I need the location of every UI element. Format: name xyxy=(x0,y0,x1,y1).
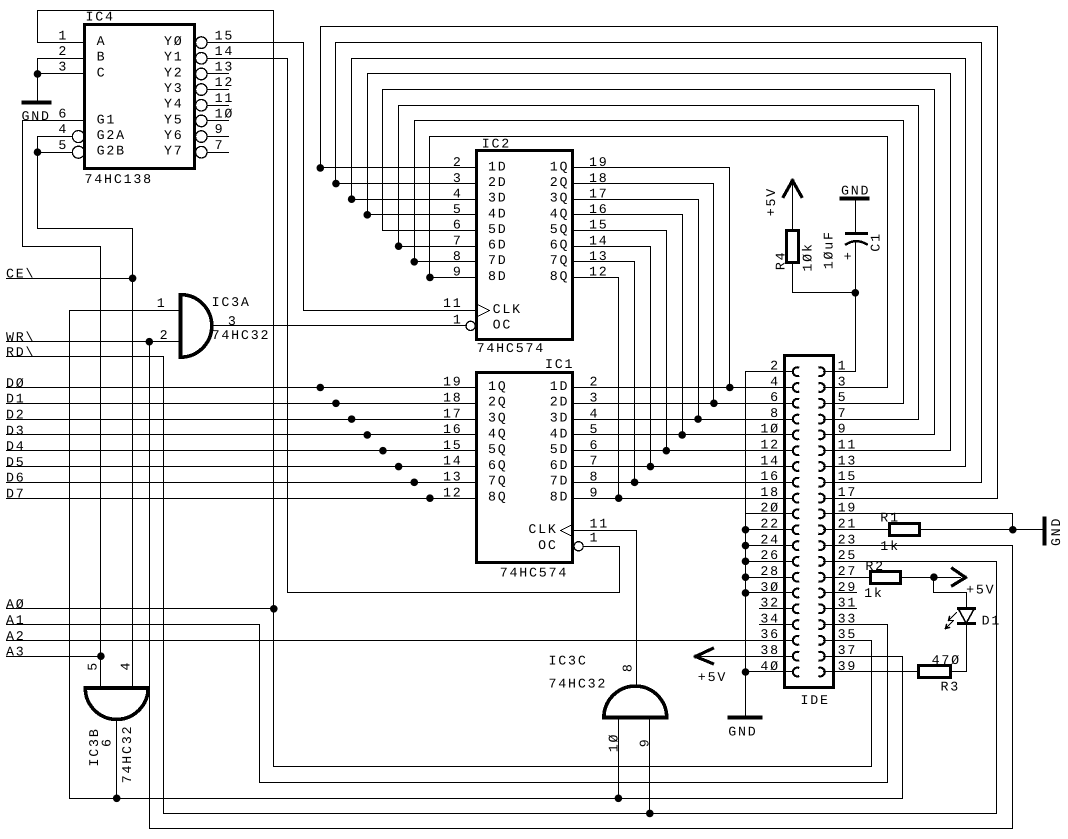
svg-text:18: 18 xyxy=(589,171,609,186)
svg-text:4: 4 xyxy=(119,661,134,671)
svg-text:16: 16 xyxy=(760,469,780,484)
svg-text:RD\: RD\ xyxy=(6,345,35,360)
svg-text:Y6: Y6 xyxy=(164,128,184,143)
svg-text:37: 37 xyxy=(838,643,858,658)
svg-text:Y4: Y4 xyxy=(164,97,184,112)
svg-text:15: 15 xyxy=(443,438,463,453)
svg-text:4: 4 xyxy=(770,374,780,389)
svg-text:9: 9 xyxy=(838,422,848,437)
svg-text:1Øk: 1Øk xyxy=(801,242,816,271)
svg-text:D5: D5 xyxy=(6,455,26,470)
svg-text:6D: 6D xyxy=(550,458,570,473)
svg-text:74HC32: 74HC32 xyxy=(549,677,608,692)
svg-text:17: 17 xyxy=(443,406,463,421)
svg-text:Y1: Y1 xyxy=(164,50,184,65)
svg-text:D3: D3 xyxy=(6,423,26,438)
svg-text:9: 9 xyxy=(215,122,225,137)
svg-text:R4: R4 xyxy=(774,251,789,271)
svg-text:6: 6 xyxy=(590,438,600,453)
svg-text:8Q: 8Q xyxy=(488,490,508,505)
svg-text:Y7: Y7 xyxy=(164,144,184,159)
svg-text:1k: 1k xyxy=(880,539,900,554)
svg-text:6: 6 xyxy=(770,390,780,405)
svg-text:1Q: 1Q xyxy=(550,159,570,174)
svg-text:+5V: +5V xyxy=(698,670,727,685)
svg-text:G2B: G2B xyxy=(97,144,126,159)
svg-text:CLK: CLK xyxy=(493,302,522,317)
svg-text:A3: A3 xyxy=(6,645,26,660)
svg-text:4D: 4D xyxy=(550,426,570,441)
svg-text:23: 23 xyxy=(838,532,858,547)
svg-text:16: 16 xyxy=(443,422,463,437)
svg-text:13: 13 xyxy=(838,453,858,468)
svg-text:1k: 1k xyxy=(864,586,884,601)
svg-text:32: 32 xyxy=(760,596,780,611)
svg-text:1ØuF: 1ØuF xyxy=(821,230,836,269)
svg-text:11: 11 xyxy=(838,438,858,453)
svg-text:4: 4 xyxy=(453,186,463,201)
svg-text:12: 12 xyxy=(215,75,235,90)
svg-text:5: 5 xyxy=(58,138,68,153)
svg-text:Y5: Y5 xyxy=(164,112,184,127)
svg-text:GND: GND xyxy=(841,183,870,198)
svg-text:2: 2 xyxy=(590,375,600,390)
svg-text:26: 26 xyxy=(760,548,780,563)
svg-text:GND: GND xyxy=(22,109,51,124)
svg-text:IC3A: IC3A xyxy=(212,295,251,310)
svg-text:5: 5 xyxy=(85,661,100,671)
svg-text:8D: 8D xyxy=(488,269,508,284)
svg-text:6: 6 xyxy=(453,218,463,233)
svg-text:2D: 2D xyxy=(488,175,508,190)
svg-text:1: 1 xyxy=(838,359,848,374)
svg-text:34: 34 xyxy=(760,611,780,626)
svg-text:28: 28 xyxy=(760,564,780,579)
svg-text:2: 2 xyxy=(453,155,463,170)
svg-text:IC2: IC2 xyxy=(482,137,511,152)
svg-text:1Ø: 1Ø xyxy=(607,733,622,753)
svg-text:4Q: 4Q xyxy=(550,206,570,221)
svg-text:IDE: IDE xyxy=(801,693,830,708)
svg-text:14: 14 xyxy=(215,44,235,59)
svg-text:5: 5 xyxy=(838,390,848,405)
svg-text:8D: 8D xyxy=(550,490,570,505)
svg-text:1Ø: 1Ø xyxy=(760,422,780,437)
svg-text:12: 12 xyxy=(589,265,609,280)
svg-text:6Q: 6Q xyxy=(550,238,570,253)
svg-text:12: 12 xyxy=(443,485,463,500)
svg-text:IC3C: IC3C xyxy=(549,654,588,669)
svg-text:7: 7 xyxy=(838,406,848,421)
svg-text:1Q: 1Q xyxy=(488,379,508,394)
svg-text:5: 5 xyxy=(453,202,463,217)
svg-text:+5V: +5V xyxy=(764,187,779,216)
svg-text:G1: G1 xyxy=(97,112,117,127)
svg-text:8: 8 xyxy=(453,249,463,264)
svg-text:17: 17 xyxy=(589,186,609,201)
svg-text:3: 3 xyxy=(590,391,600,406)
svg-text:11: 11 xyxy=(443,296,463,311)
svg-text:2: 2 xyxy=(58,44,68,59)
svg-text:7D: 7D xyxy=(550,474,570,489)
svg-text:A1: A1 xyxy=(6,613,26,628)
svg-text:6Q: 6Q xyxy=(488,458,508,473)
svg-text:25: 25 xyxy=(838,548,858,563)
svg-text:74HC574: 74HC574 xyxy=(477,341,545,356)
svg-text:11: 11 xyxy=(215,91,235,106)
svg-text:13: 13 xyxy=(443,470,463,485)
svg-text:R2: R2 xyxy=(865,559,885,574)
svg-text:18: 18 xyxy=(443,391,463,406)
svg-text:6D: 6D xyxy=(488,238,508,253)
svg-text:1: 1 xyxy=(590,531,600,546)
svg-text:CLK: CLK xyxy=(528,522,557,537)
svg-text:5: 5 xyxy=(590,422,600,437)
svg-text:3: 3 xyxy=(228,314,238,329)
svg-text:D1: D1 xyxy=(6,392,26,407)
svg-text:1Ø: 1Ø xyxy=(215,107,235,122)
svg-text:4Ø: 4Ø xyxy=(760,659,780,674)
svg-text:1: 1 xyxy=(453,312,463,327)
svg-text:3Q: 3Q xyxy=(488,411,508,426)
svg-text:5D: 5D xyxy=(550,442,570,457)
svg-text:A: A xyxy=(97,34,107,49)
svg-text:19: 19 xyxy=(443,375,463,390)
svg-text:12: 12 xyxy=(760,438,780,453)
svg-text:7Q: 7Q xyxy=(488,474,508,489)
svg-text:74HC32: 74HC32 xyxy=(212,328,271,343)
svg-text:GND: GND xyxy=(728,724,757,739)
svg-text:35: 35 xyxy=(838,627,858,642)
svg-text:6: 6 xyxy=(100,737,115,747)
svg-text:14: 14 xyxy=(760,453,780,468)
svg-text:16: 16 xyxy=(589,202,609,217)
svg-text:D2: D2 xyxy=(6,408,26,423)
svg-text:38: 38 xyxy=(760,643,780,658)
svg-text:C: C xyxy=(97,65,107,80)
svg-text:13: 13 xyxy=(589,249,609,264)
svg-text:39: 39 xyxy=(838,659,858,674)
svg-text:DØ: DØ xyxy=(6,376,26,391)
svg-text:22: 22 xyxy=(760,517,780,532)
svg-text:2Ø: 2Ø xyxy=(760,501,780,516)
svg-text:8: 8 xyxy=(621,662,636,672)
svg-text:24: 24 xyxy=(760,532,780,547)
svg-text:CE\: CE\ xyxy=(6,267,35,282)
svg-text:D6: D6 xyxy=(6,471,26,486)
svg-text:IC4: IC4 xyxy=(86,10,115,25)
svg-text:15: 15 xyxy=(215,28,235,43)
svg-text:8: 8 xyxy=(770,406,780,421)
svg-text:3D: 3D xyxy=(550,411,570,426)
svg-text:8Q: 8Q xyxy=(550,269,570,284)
svg-text:Y2: Y2 xyxy=(164,65,184,80)
svg-text:YØ: YØ xyxy=(164,34,184,49)
svg-text:C1: C1 xyxy=(869,232,884,252)
svg-text:18: 18 xyxy=(760,485,780,500)
svg-text:Y3: Y3 xyxy=(164,81,184,96)
svg-text:1: 1 xyxy=(157,296,167,311)
svg-text:2Q: 2Q xyxy=(488,395,508,410)
svg-text:74HC138: 74HC138 xyxy=(85,172,153,187)
svg-text:+: + xyxy=(844,249,854,264)
svg-text:GND: GND xyxy=(1049,517,1064,546)
svg-text:33: 33 xyxy=(838,611,858,626)
svg-text:+5V: +5V xyxy=(966,583,995,598)
svg-text:3: 3 xyxy=(838,374,848,389)
svg-text:15: 15 xyxy=(589,218,609,233)
svg-text:14: 14 xyxy=(443,454,463,469)
svg-text:2: 2 xyxy=(770,359,780,374)
svg-text:74HC574: 74HC574 xyxy=(500,566,568,581)
svg-text:4D: 4D xyxy=(488,206,508,221)
svg-text:B: B xyxy=(97,50,107,65)
svg-text:14: 14 xyxy=(589,233,609,248)
svg-text:9: 9 xyxy=(590,485,600,500)
svg-text:D7: D7 xyxy=(6,487,26,502)
svg-text:11: 11 xyxy=(590,517,610,532)
svg-text:15: 15 xyxy=(838,469,858,484)
svg-text:1D: 1D xyxy=(488,159,508,174)
svg-text:29: 29 xyxy=(838,580,858,595)
svg-text:2D: 2D xyxy=(550,395,570,410)
svg-text:7: 7 xyxy=(453,233,463,248)
svg-text:WR\: WR\ xyxy=(6,330,35,345)
svg-text:4: 4 xyxy=(590,406,600,421)
svg-text:7Q: 7Q xyxy=(550,253,570,268)
svg-text:7: 7 xyxy=(215,138,225,153)
svg-text:31: 31 xyxy=(838,596,858,611)
svg-text:74HC32: 74HC32 xyxy=(120,725,135,784)
svg-text:1: 1 xyxy=(58,28,68,43)
svg-text:13: 13 xyxy=(215,60,235,75)
svg-text:19: 19 xyxy=(838,501,858,516)
svg-text:7D: 7D xyxy=(488,253,508,268)
svg-text:OC: OC xyxy=(493,318,513,333)
svg-text:3Ø: 3Ø xyxy=(760,580,780,595)
svg-text:7: 7 xyxy=(590,454,600,469)
svg-text:OC: OC xyxy=(538,538,558,553)
svg-text:4: 4 xyxy=(58,122,68,137)
svg-text:36: 36 xyxy=(760,627,780,642)
svg-text:IC1: IC1 xyxy=(545,357,574,372)
svg-text:6: 6 xyxy=(58,107,68,122)
svg-text:21: 21 xyxy=(838,517,858,532)
svg-text:19: 19 xyxy=(589,155,609,170)
svg-text:D1: D1 xyxy=(982,613,1002,628)
svg-text:3Q: 3Q xyxy=(550,191,570,206)
svg-text:R1: R1 xyxy=(880,510,900,525)
svg-text:27: 27 xyxy=(838,564,858,579)
svg-text:D4: D4 xyxy=(6,439,26,454)
svg-text:3: 3 xyxy=(58,60,68,75)
svg-text:17: 17 xyxy=(838,485,858,500)
svg-text:G2A: G2A xyxy=(97,128,126,143)
svg-text:5Q: 5Q xyxy=(488,442,508,457)
svg-text:R3: R3 xyxy=(941,679,961,694)
svg-text:1D: 1D xyxy=(550,379,570,394)
svg-text:8: 8 xyxy=(590,470,600,485)
svg-text:A2: A2 xyxy=(6,629,26,644)
svg-text:4Q: 4Q xyxy=(488,426,508,441)
svg-text:3D: 3D xyxy=(488,191,508,206)
svg-text:3: 3 xyxy=(453,171,463,186)
svg-text:5D: 5D xyxy=(488,222,508,237)
svg-text:47Ø: 47Ø xyxy=(932,653,961,668)
svg-text:5Q: 5Q xyxy=(550,222,570,237)
svg-text:9: 9 xyxy=(453,265,463,280)
svg-text:2: 2 xyxy=(160,328,170,343)
svg-text:AØ: AØ xyxy=(6,597,26,612)
svg-text:2Q: 2Q xyxy=(550,175,570,190)
svg-text:9: 9 xyxy=(637,738,652,748)
